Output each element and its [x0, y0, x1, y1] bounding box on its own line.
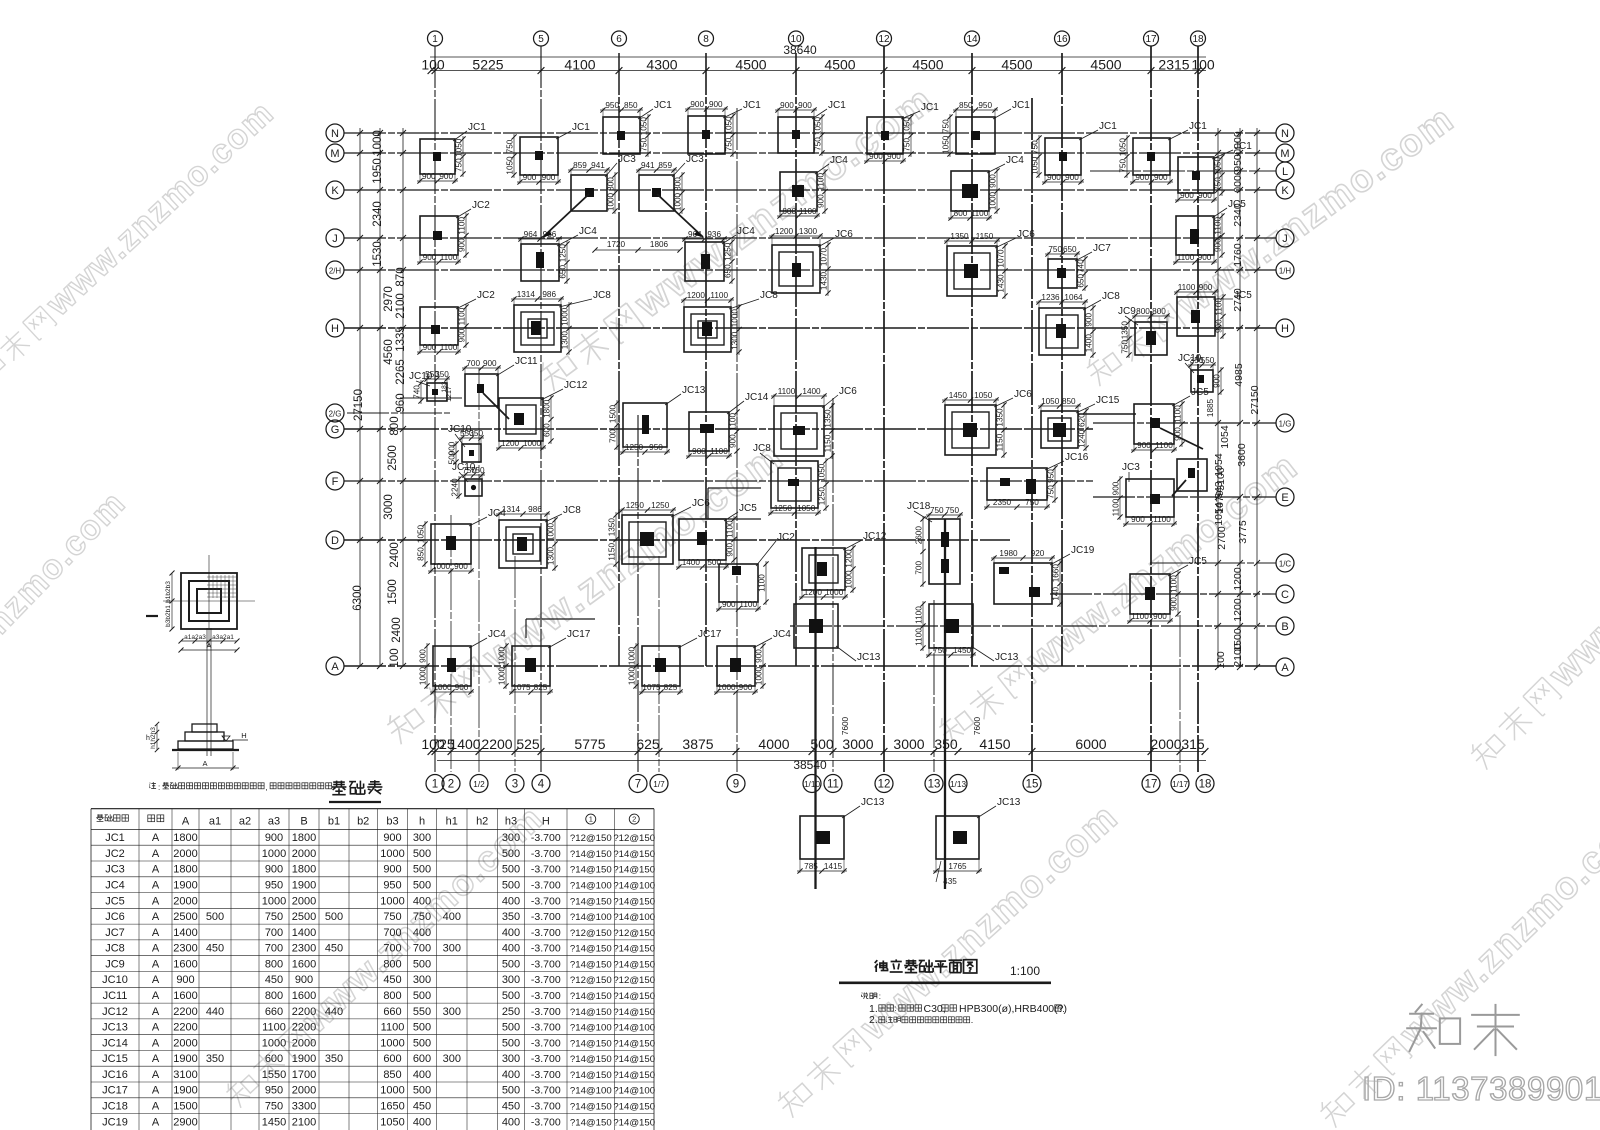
svg-text:1000: 1000: [755, 666, 764, 685]
svg-text:JC4: JC4: [1006, 155, 1024, 166]
svg-text:2200: 2200: [292, 1022, 316, 1034]
svg-text:750: 750: [1031, 140, 1040, 154]
svg-text:-3.700: -3.700: [531, 848, 561, 860]
svg-text:750: 750: [942, 119, 951, 133]
axis bubble K right: [1276, 181, 1294, 199]
svg-text:JC6: JC6: [1017, 229, 1035, 240]
svg-text:JC16: JC16: [1065, 452, 1089, 463]
svg-text:JC1: JC1: [468, 122, 486, 133]
axis 17 line: [1150, 46, 1152, 772]
axis bubble 1/13 bottom: [949, 775, 967, 793]
svg-text:100: 100: [1215, 651, 1227, 669]
svg-text:?14@150: ?14@150: [570, 896, 612, 907]
svg-text:500: 500: [206, 911, 224, 923]
foundation JC5 at (1195,235): [1173, 199, 1246, 265]
dimension 1217 at JC10: [441, 381, 453, 402]
svg-text:E: E: [1281, 492, 1288, 504]
leader cluster right 1: [1160, 428, 1203, 449]
svg-text:986: 986: [528, 505, 542, 514]
svg-text:600: 600: [543, 423, 552, 437]
svg-text:?14@100: ?14@100: [613, 1023, 655, 1034]
axis bubble H right: [1276, 319, 1294, 337]
svg-text:?14@150: ?14@150: [613, 865, 655, 876]
svg-text:900: 900: [692, 447, 706, 456]
svg-text:620: 620: [1078, 413, 1087, 427]
svg-text:1200: 1200: [1232, 598, 1244, 622]
svg-text:C: C: [1281, 589, 1289, 601]
svg-text:1900: 1900: [173, 1053, 197, 1065]
axis bubble J left: [326, 229, 344, 247]
svg-text:4000: 4000: [758, 736, 789, 752]
svg-text:500: 500: [413, 1037, 431, 1049]
svg-text:JC10: JC10: [102, 974, 128, 986]
svg-text:?14@150: ?14@150: [570, 865, 612, 876]
svg-text:1236: 1236: [1041, 293, 1060, 302]
svg-text:1200: 1200: [804, 588, 823, 597]
svg-text:350: 350: [325, 1053, 343, 1065]
svg-text:100: 100: [389, 648, 401, 667]
svg-text:900: 900: [709, 100, 723, 109]
axis line F: [344, 480, 1093, 482]
axis 11 line: [832, 398, 834, 772]
foundation JC1 at (1063,156): [1031, 121, 1118, 185]
svg-text:800: 800: [383, 958, 401, 970]
svg-text:JC6: JC6: [105, 911, 125, 923]
pit outline near axis 7: [708, 488, 761, 519]
svg-text:JC13: JC13: [857, 652, 881, 663]
svg-text:1550: 1550: [262, 1069, 286, 1081]
axis 9 line: [736, 108, 738, 772]
svg-text:12: 12: [878, 34, 890, 45]
svg-text:500: 500: [413, 958, 431, 970]
svg-text:b2: b2: [357, 815, 369, 827]
foundation JC10 at (473,487): [451, 462, 486, 499]
svg-text:JC3: JC3: [105, 864, 125, 876]
svg-text:1800: 1800: [292, 864, 316, 876]
svg-text:2300: 2300: [292, 943, 316, 955]
svg-text:800: 800: [265, 958, 283, 970]
svg-text:350: 350: [206, 1053, 224, 1065]
svg-text:3000: 3000: [893, 736, 924, 752]
axis 14 line: [971, 53, 973, 666]
svg-text:?12@150: ?12@150: [613, 833, 655, 844]
ID text: [1362, 1070, 1600, 1107]
svg-text:870: 870: [395, 267, 407, 286]
svg-text:JC18: JC18: [102, 1101, 128, 1113]
JC16 second column: [1026, 479, 1036, 494]
svg-text:300: 300: [443, 1006, 461, 1018]
svg-text:350: 350: [502, 911, 520, 923]
bottom dimension band: [421, 736, 1208, 772]
svg-text:900: 900: [454, 562, 468, 571]
axis bubble 2 bottom: [442, 775, 460, 793]
svg-text:JC15: JC15: [1096, 395, 1120, 406]
svg-text:JC11: JC11: [515, 356, 538, 367]
svg-text:ID: 1137389901: ID: 1137389901: [1362, 1070, 1600, 1107]
svg-text:4500: 4500: [735, 57, 766, 73]
svg-text:700: 700: [265, 943, 283, 955]
svg-text:900: 900: [176, 974, 194, 986]
svg-text:1300: 1300: [799, 227, 818, 236]
axis line 1/C: [1150, 562, 1276, 564]
svg-text:4500: 4500: [912, 57, 943, 73]
axis 4-5 line: [540, 46, 542, 772]
foundation JC6 at (799,431): [771, 386, 857, 459]
svg-text:G: G: [331, 424, 340, 436]
svg-text:JC5: JC5: [739, 503, 757, 514]
svg-text:1100: 1100: [1177, 253, 1195, 262]
svg-text:1350: 1350: [950, 232, 969, 241]
svg-text:1075: 1075: [512, 683, 531, 692]
svg-text:1350: 1350: [996, 408, 1005, 427]
svg-text:-3.700: -3.700: [531, 974, 561, 986]
svg-text:750: 750: [1025, 498, 1039, 507]
svg-text:-3.700: -3.700: [531, 990, 561, 1002]
svg-text:1050: 1050: [903, 117, 912, 136]
dimension 7600 left column: [841, 716, 850, 735]
svg-text:JC14: JC14: [102, 1037, 128, 1049]
svg-text:-3.700: -3.700: [531, 1006, 561, 1018]
svg-text:11: 11: [827, 779, 839, 791]
svg-text:300: 300: [443, 943, 461, 955]
svg-text:-3.700: -3.700: [531, 895, 561, 907]
svg-text:850: 850: [383, 1069, 401, 1081]
svg-text:315: 315: [1181, 736, 1205, 752]
detail plan of footing rebar: [146, 555, 255, 653]
svg-text:4500: 4500: [1090, 57, 1121, 73]
svg-text:450: 450: [325, 943, 343, 955]
svg-text:JC8: JC8: [593, 290, 611, 301]
svg-text:2000: 2000: [173, 1037, 197, 1049]
svg-text:1400: 1400: [173, 927, 197, 939]
svg-text:1900: 1900: [292, 880, 316, 892]
svg-text:A: A: [152, 911, 160, 923]
axis line E: [1093, 496, 1276, 498]
svg-text:900: 900: [295, 974, 313, 986]
svg-text:?14@150: ?14@150: [570, 959, 612, 970]
svg-text:850: 850: [624, 101, 638, 110]
axis 13 line: [933, 600, 935, 772]
svg-text:2600: 2600: [915, 526, 924, 545]
svg-text:JC1: JC1: [572, 122, 590, 133]
svg-text:4: 4: [538, 779, 545, 791]
foundation JC4 at (451,544): [417, 508, 507, 574]
foundation JC1 at (706,135): [685, 100, 761, 157]
svg-text:1200: 1200: [687, 291, 706, 300]
svg-text:A: A: [152, 880, 160, 892]
foundation JC1 at (796,135): [775, 100, 846, 156]
svg-text:?14@150: ?14@150: [613, 849, 655, 860]
svg-text:D: D: [331, 535, 339, 547]
svg-text:1806: 1806: [650, 240, 669, 249]
svg-text:2000: 2000: [292, 895, 316, 907]
svg-text:1450: 1450: [262, 1116, 286, 1128]
svg-text:900: 900: [1180, 191, 1194, 200]
svg-text:100: 100: [421, 57, 445, 73]
svg-text:2: 2: [632, 815, 636, 824]
svg-text:500: 500: [413, 1022, 431, 1034]
svg-text:600: 600: [413, 1053, 431, 1065]
svg-text:900: 900: [383, 864, 401, 876]
svg-text:JC8: JC8: [753, 443, 771, 454]
svg-text:941: 941: [641, 161, 655, 170]
svg-text:1450: 1450: [949, 391, 968, 400]
svg-text:400: 400: [502, 1116, 520, 1128]
svg-text:JC2: JC2: [477, 290, 495, 301]
dimension 435 bottom: [936, 861, 957, 886]
foundation JC19 at (1023,583): [991, 545, 1095, 607]
svg-text:400: 400: [502, 943, 520, 955]
svg-text:7600: 7600: [841, 716, 850, 735]
svg-text:4150: 4150: [979, 736, 1010, 752]
svg-text:1100: 1100: [1155, 441, 1173, 450]
svg-text:859: 859: [658, 161, 672, 170]
svg-text:900: 900: [423, 343, 437, 352]
notes 说明: [862, 992, 1067, 1026]
step wall segment: [526, 619, 595, 638]
svg-text:?14@100: ?14@100: [613, 1086, 655, 1097]
svg-text:?12@150: ?12@150: [570, 928, 612, 939]
svg-text:1000: 1000: [419, 666, 428, 685]
svg-text:1900: 1900: [173, 880, 197, 892]
svg-text:1100: 1100: [262, 1022, 286, 1034]
svg-text:JC5: JC5: [1234, 290, 1252, 301]
svg-text:8: 8: [703, 34, 709, 45]
axis bubble 17 bottom: [1142, 775, 1160, 793]
foundation JC3 at (589,193): [568, 154, 636, 214]
svg-text:JC4: JC4: [773, 629, 791, 640]
svg-text::: :: [158, 783, 160, 792]
axis line H: [344, 327, 1276, 329]
foundation JC5 at (1150,594): [1127, 556, 1207, 624]
svg-text:900: 900: [1131, 515, 1145, 524]
svg-text:1/13: 1/13: [950, 780, 966, 789]
foundation JC4 at (540,262): [518, 226, 597, 284]
foundation JC5 at (702,539): [676, 503, 757, 570]
svg-text:1885: 1885: [1206, 398, 1215, 417]
svg-text:1900: 1900: [173, 1085, 197, 1097]
svg-text:750: 750: [265, 1101, 283, 1113]
svg-text:?14@100: ?14@100: [570, 912, 612, 923]
svg-text:JC5: JC5: [1189, 556, 1207, 567]
svg-text:1250: 1250: [774, 504, 793, 513]
svg-text:900: 900: [1199, 283, 1213, 292]
svg-text:1500: 1500: [609, 404, 618, 423]
svg-text:?14@150: ?14@150: [570, 1102, 612, 1113]
svg-text:1000: 1000: [433, 683, 452, 692]
foundation JC3 at (656,193): [636, 154, 704, 214]
svg-text:1000: 1000: [380, 1037, 404, 1049]
svg-text:JC9: JC9: [105, 958, 125, 970]
svg-text:900: 900: [265, 832, 283, 844]
foundation JC6 at (970,430): [942, 389, 1032, 458]
svg-text:1/7: 1/7: [653, 780, 665, 789]
axis bubble 6 top: [612, 31, 627, 46]
svg-text:900: 900: [1135, 173, 1149, 182]
svg-text:A: A: [152, 1006, 160, 1018]
svg-text:1150: 1150: [608, 543, 617, 561]
svg-text:450: 450: [206, 943, 224, 955]
svg-text:350: 350: [934, 736, 958, 752]
svg-text:700: 700: [383, 943, 401, 955]
axis bubble 1 bottom: [426, 775, 444, 793]
svg-text:1314: 1314: [502, 505, 521, 514]
svg-text:900: 900: [423, 253, 437, 262]
svg-text:b3: b3: [386, 815, 398, 827]
axis 8 line: [705, 53, 707, 666]
svg-text:500: 500: [810, 736, 834, 752]
svg-text:750: 750: [640, 138, 649, 152]
svg-text:1200: 1200: [775, 227, 794, 236]
svg-text:-3.700: -3.700: [531, 943, 561, 955]
svg-text:500: 500: [413, 864, 431, 876]
axis bubble 1/G right: [1276, 414, 1294, 432]
svg-text:1100: 1100: [778, 387, 796, 396]
foundation JC5 at (1196,316): [1174, 283, 1252, 339]
axis bubble N left: [326, 124, 344, 142]
svg-text:900: 900: [1047, 173, 1061, 182]
svg-text:950: 950: [605, 101, 619, 110]
svg-text:JC6: JC6: [835, 229, 853, 240]
svg-text:900: 900: [1198, 253, 1212, 262]
foundation JC1 at (975,135): [942, 100, 1031, 157]
svg-text:1000: 1000: [674, 192, 683, 211]
axis bubble 10 top: [789, 31, 804, 46]
svg-text:1: 1: [589, 815, 593, 824]
svg-text:A: A: [152, 1085, 160, 1097]
svg-text:1100: 1100: [1174, 405, 1183, 423]
svg-text:27150: 27150: [353, 389, 365, 421]
svg-text:1/2: 1/2: [473, 780, 485, 789]
svg-text:1430: 1430: [997, 274, 1006, 293]
svg-text:400: 400: [502, 927, 520, 939]
svg-text:JC11: JC11: [103, 990, 128, 1002]
drawing title 独立基础平面图: [839, 959, 1051, 982]
axis line N: [344, 132, 1276, 134]
svg-text:?14@100: ?14@100: [570, 1023, 612, 1034]
axis line A: [344, 665, 1276, 667]
svg-text:900: 900: [869, 152, 883, 161]
svg-text:750: 750: [933, 646, 947, 655]
svg-text:2300: 2300: [173, 943, 197, 955]
svg-text:H: H: [331, 323, 339, 335]
right dimension chain: [1213, 128, 1261, 670]
watermark center-right lower: [930, 445, 1306, 752]
svg-text:JC1: JC1: [921, 102, 939, 113]
svg-text:N: N: [1281, 128, 1289, 140]
axis 2 line: [450, 515, 452, 772]
svg-text:JC8: JC8: [105, 943, 125, 955]
svg-text:h: h: [146, 735, 150, 742]
svg-text:900: 900: [265, 864, 283, 876]
svg-text:JC4: JC4: [488, 629, 506, 640]
svg-text:950: 950: [383, 880, 401, 892]
svg-text:.: .: [1062, 1004, 1065, 1014]
svg-text:1400: 1400: [802, 387, 821, 396]
svg-text:1980: 1980: [999, 549, 1018, 558]
svg-text:JC13: JC13: [997, 797, 1021, 808]
svg-text:750: 750: [1119, 159, 1128, 173]
foundation table: [91, 809, 655, 1130]
svg-text:950: 950: [649, 443, 663, 452]
svg-text:JC19: JC19: [102, 1116, 128, 1128]
axis bubble 18 bottom: [1196, 775, 1214, 793]
svg-text:1054: 1054: [1213, 502, 1225, 526]
leader cluster right 2: [1172, 480, 1186, 496]
foundation JC8 at (794,484): [753, 443, 829, 516]
foundation JC2 at (439,235): [417, 200, 490, 265]
svg-text:JC5: JC5: [1228, 199, 1246, 210]
svg-text:750: 750: [1121, 340, 1130, 354]
svg-text:B: B: [300, 815, 307, 827]
svg-text:?14@150: ?14@150: [613, 1102, 655, 1113]
svg-text:900: 900: [1214, 238, 1223, 252]
svg-text:900: 900: [542, 173, 556, 182]
svg-text:2/G: 2/G: [329, 410, 342, 419]
svg-text:?14@100: ?14@100: [570, 881, 612, 892]
svg-text:JC2: JC2: [777, 532, 795, 543]
svg-text:700: 700: [383, 927, 401, 939]
svg-text:350: 350: [435, 370, 449, 379]
svg-text:900: 900: [780, 101, 794, 110]
axis bubble 17 top: [1144, 31, 1159, 46]
svg-text:1100: 1100: [458, 217, 467, 235]
svg-text:1400: 1400: [292, 927, 316, 939]
svg-text:1000: 1000: [498, 666, 507, 685]
svg-text:1600: 1600: [173, 990, 197, 1002]
svg-text:1050: 1050: [942, 135, 951, 154]
note text under details: [149, 782, 331, 792]
axis 18 line: [1197, 46, 1199, 772]
svg-text:1050: 1050: [974, 391, 993, 400]
svg-text:1300: 1300: [731, 331, 740, 350]
JC19 corner column: [1029, 587, 1040, 597]
svg-text:a2: a2: [239, 815, 251, 827]
svg-text:1/H: 1/H: [1279, 267, 1292, 276]
svg-text:1660: 1660: [1052, 564, 1061, 583]
svg-text:900: 900: [798, 101, 812, 110]
svg-text:1800: 1800: [543, 399, 552, 418]
svg-text:750: 750: [1214, 177, 1223, 191]
svg-text:1100: 1100: [710, 291, 728, 300]
svg-text:1600: 1600: [173, 958, 197, 970]
axis 3 line: [514, 556, 516, 772]
svg-text:1200: 1200: [845, 549, 854, 568]
svg-text:?14@150: ?14@150: [613, 944, 655, 955]
watermark left-edge: [0, 484, 133, 795]
svg-text:1000: 1000: [731, 309, 740, 328]
svg-text:1/17: 1/17: [1172, 780, 1188, 789]
svg-text:435: 435: [943, 877, 957, 886]
svg-text:1150: 1150: [824, 434, 833, 452]
svg-text:250: 250: [502, 1006, 520, 1018]
svg-text:1050: 1050: [814, 116, 823, 135]
svg-text:10: 10: [790, 34, 802, 45]
svg-text:400: 400: [443, 911, 461, 923]
axis line 1/G: [1093, 422, 1276, 424]
svg-text:900: 900: [729, 434, 738, 448]
svg-text:1000: 1000: [607, 192, 616, 211]
foundation JC17 at (531,666): [498, 629, 591, 695]
svg-text:750: 750: [383, 911, 401, 923]
axis bubble 2/G left: [326, 404, 344, 422]
svg-text:b1: b1: [328, 815, 340, 827]
svg-text:3875: 3875: [682, 736, 713, 752]
svg-text:3100: 3100: [173, 1069, 197, 1081]
svg-text:750: 750: [413, 911, 431, 923]
svg-text:-3.700: -3.700: [531, 958, 561, 970]
svg-text:JC1: JC1: [743, 100, 761, 111]
